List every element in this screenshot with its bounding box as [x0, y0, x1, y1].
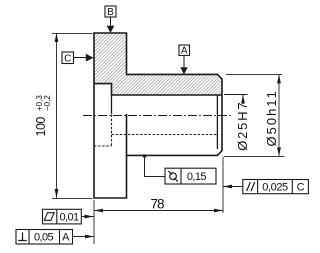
svg-text:0,15: 0,15 [187, 171, 206, 183]
svg-text:100: 100 [34, 117, 48, 137]
dim O25H7: arrow up [241, 95, 245, 104]
svg-text:C: C [297, 182, 305, 194]
dim O50h11: arrows [277, 74, 281, 83]
counterbore step line to centerline [111, 95, 113, 114]
chamfer edge line at right end [216, 95, 218, 149]
fcf cylindricity 0,15: frame [165, 168, 216, 184]
fcf flatness 0,01: leader arrow [81, 216, 93, 218]
svg-text:0,01: 0,01 [59, 211, 78, 223]
body lower outline with end chamfer [127, 95, 223, 155]
svg-text:B: B [107, 7, 114, 18]
hidden counterbore vertical (dashed) [111, 115, 113, 147]
cylindricity symbol [170, 173, 177, 180]
hidden counterbore bottom (dashed) [94, 145, 112, 147]
datum A triangle [180, 67, 188, 74]
perpendicularity symbol [22, 233, 24, 241]
centerline (dash-dot) [83, 115, 232, 117]
dim O50h11 text (rotated) [264, 89, 279, 146]
dim O25H7: extension line [224, 94, 248, 96]
svg-text:A: A [62, 231, 70, 243]
flatness symbol [44, 213, 54, 221]
svg-text:0,05: 0,05 [34, 231, 53, 243]
fcf cylindricity 0,15: leader [145, 156, 166, 177]
dim 78: extension lines [93, 200, 95, 213]
dim 100 text with tolerances (rotated) [34, 95, 52, 137]
dim 100: extension lines [52, 32, 92, 34]
dim O25H7 text (rotated) [235, 101, 250, 151]
svg-text:−0,2: −0,2 [43, 95, 52, 111]
dim 78: arrows [94, 209, 103, 213]
svg-text:0,025: 0,025 [262, 182, 288, 194]
svg-text:C: C [64, 54, 71, 65]
svg-text:Ø25H7: Ø25H7 [235, 101, 250, 151]
svg-text:Ø50h11: Ø50h11 [264, 89, 279, 146]
datum C triangle [86, 54, 94, 62]
hidden bore line (dashed) [112, 134, 218, 136]
dim O50h11: extension lines [226, 73, 282, 75]
datum B triangle [107, 26, 115, 33]
datum A box [179, 45, 190, 57]
fcf perpendicularity 0,05 A: frame [16, 230, 73, 245]
parallelism symbol [247, 182, 251, 191]
dim 100: arrows [55, 33, 59, 42]
datum C leader [74, 57, 87, 59]
datum B leader [110, 17, 112, 27]
svg-text:A: A [181, 46, 188, 57]
part section hatched area (flange + body wall) [94, 33, 222, 95]
flange lower outline [94, 84, 127, 198]
fcf cylindricity 0,15: leader dot on body bottom [143, 154, 147, 158]
dim 100: dimension line [56, 33, 58, 198]
dim O50h11: dimension line [278, 74, 280, 156]
fcf parallelism 0,025 C: leader arrow [223, 186, 243, 188]
svg-text:78: 78 [150, 197, 164, 212]
dim 78: dimension line [94, 210, 223, 212]
extension line continuation for leaders at x=94 [93, 213, 95, 244]
fcf flatness 0,01: frame [43, 209, 82, 224]
datum B box [105, 6, 116, 18]
fcf perpendicularity 0,05 A: leader arrow [73, 236, 95, 238]
fcf parallelism 0,025 C: frame [243, 180, 309, 194]
datum C box [62, 52, 74, 65]
datum A leader [183, 56, 185, 69]
